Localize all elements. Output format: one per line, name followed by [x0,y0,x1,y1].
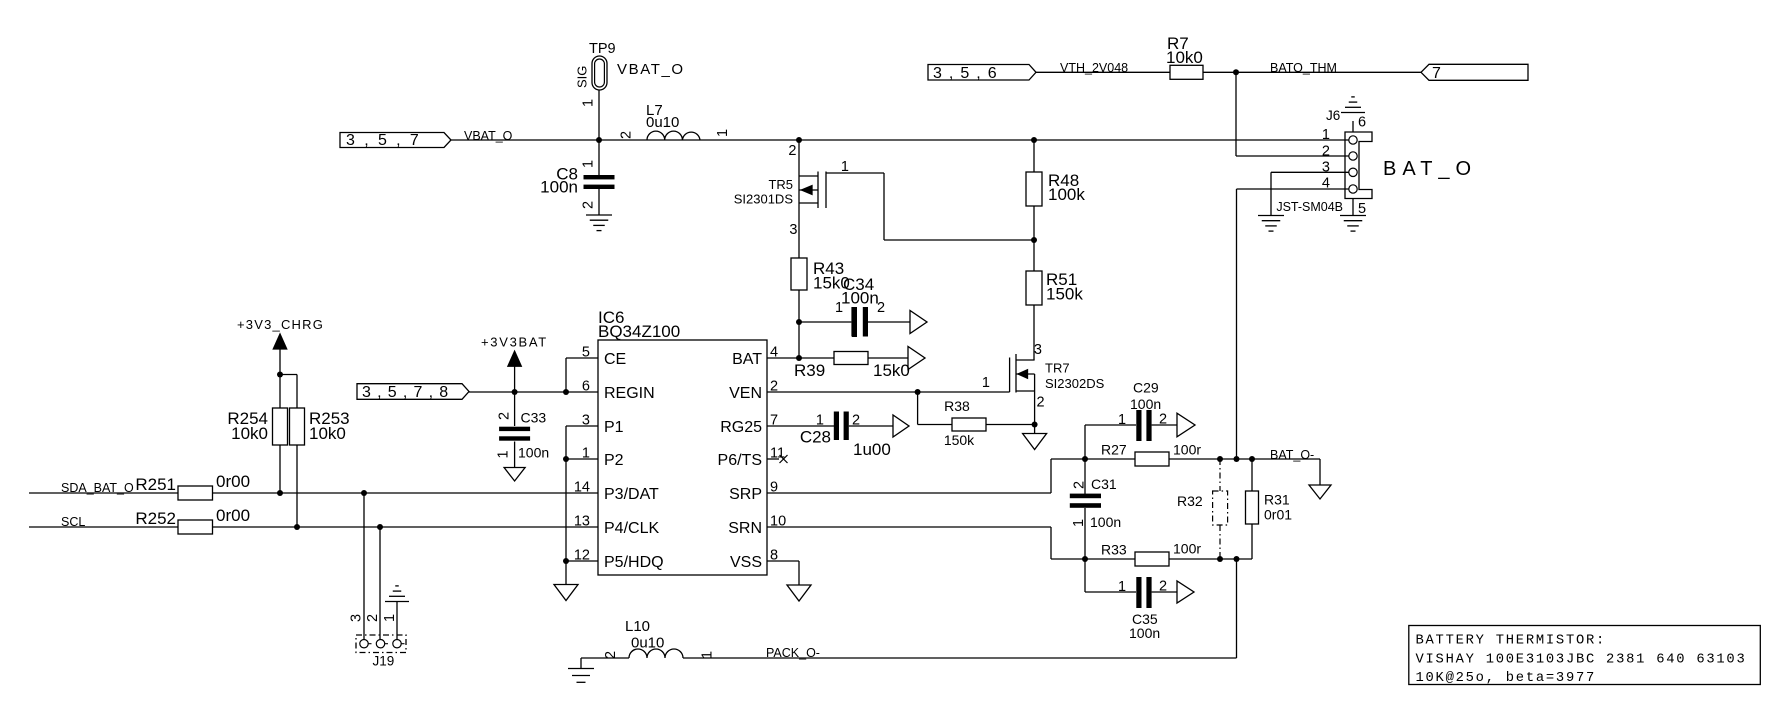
svg-text:7: 7 [1432,65,1441,82]
svg-text:SI2301DS: SI2301DS [734,192,794,207]
svg-text:1: 1 [715,129,731,137]
svg-text:150k: 150k [944,432,975,448]
svg-text:BAT_O-: BAT_O- [1270,448,1314,462]
svg-text:P4/CLK: P4/CLK [604,520,659,537]
ground TR7 (triangle) [1034,425,1036,434]
wire R7 to tag 7 [1203,71,1421,73]
node junction R254/R253 top [277,372,283,378]
svg-text:3: 3 [349,614,365,622]
svg-text:2: 2 [1037,395,1045,411]
svg-text:BQ34Z100: BQ34Z100 [598,322,680,341]
svg-text:R27: R27 [1101,442,1127,458]
svg-text:100n: 100n [1129,625,1160,641]
capacitor C29 [1085,424,1136,426]
svg-text:6: 6 [1358,115,1366,131]
svg-text:P6/TS: P6/TS [718,452,762,469]
transistor TR7 SI2302DS [1016,359,1035,361]
node junction J19 pin2 [377,524,383,530]
resistor R48 [1033,140,1035,172]
svg-text:J6: J6 [1326,108,1340,123]
svg-text:1: 1 [581,99,597,107]
capacitor C35 [1085,591,1136,593]
svg-text:100k: 100k [1048,185,1085,204]
net tag 3,5,7 (VBAT_O) [340,133,451,148]
wire PACK_O- [683,657,1237,659]
svg-text:C28: C28 [800,428,831,447]
svg-text:1: 1 [982,375,990,391]
svg-text:BATTERY THERMISTOR:: BATTERY THERMISTOR: [1416,634,1607,649]
node junction TP9/C8 [596,137,602,143]
ground J19 pin1 (earth up) [385,601,409,603]
IC U1 BQ34Z100 body [598,340,767,575]
node junction R32 bottom [1217,556,1223,562]
wire C29 bus down [1084,425,1086,494]
transistor TR5 SI2301DS [799,175,818,177]
wire TR5 gate to R48/R51 node [826,172,884,174]
svg-text:2: 2 [1322,144,1330,160]
svg-text:C33: C33 [521,410,547,426]
svg-text:10K@25o, beta=3977: 10K@25o, beta=3977 [1416,670,1597,686]
wire REGIN row [469,391,598,393]
node junction REGIN/CE [563,389,569,395]
ground P5 (triangle) [565,561,567,585]
svg-text:10k0: 10k0 [309,424,346,443]
resistor R33 [1085,558,1135,560]
capacitor C8 [598,140,600,176]
svg-text:2: 2 [1072,481,1088,489]
svg-text:2: 2 [497,412,513,420]
node junction TR5 [796,137,802,143]
svg-text:REGIN: REGIN [604,385,655,402]
svg-text:3: 3 [1034,342,1042,358]
wire R43 to BAT row [798,290,800,358]
net tag 3,5,6 (VTH) [928,65,1036,81]
resistor R27 [1085,458,1135,460]
node junction PACK net [1234,556,1240,562]
resistor R32 (dashed) [1219,459,1221,491]
svg-text:100r: 100r [1173,442,1201,458]
wire SRN row [767,526,1051,528]
svg-text:P2: P2 [604,452,624,469]
ground J6 pin3 [1258,215,1284,217]
wire PACK up to R33 row [1236,559,1238,658]
svg-text:15k0: 15k0 [873,361,910,380]
node junction TR5 gate net [1031,237,1037,243]
svg-text:VBAT_O: VBAT_O [617,61,685,78]
svg-text:VBAT_O: VBAT_O [464,129,513,143]
resistor R51 [1026,271,1042,305]
ground C8 [586,214,612,216]
node junction BAT/R39 [796,355,802,361]
svg-text:100n: 100n [540,178,578,197]
svg-text:SRN: SRN [728,520,762,537]
svg-text:1: 1 [1322,127,1330,143]
svg-text:JST-SM04B: JST-SM04B [1276,200,1343,214]
svg-text:1: 1 [1118,579,1126,595]
wire SCL left [29,526,178,528]
J6 pin circles [1349,136,1357,144]
svg-text:L10: L10 [625,618,650,635]
svg-text:3: 3 [789,222,797,238]
wire J6 pin2 (BATO_THM) [1235,72,1237,156]
svg-text:C29: C29 [1133,380,1159,396]
svg-text:SIG: SIG [575,66,590,88]
svg-text:VEN: VEN [729,385,762,402]
svg-text:PACK_O-: PACK_O- [766,646,820,660]
wire SDA right [213,492,599,494]
svg-text:100n: 100n [1130,396,1161,412]
offpage arrow C28 [893,415,909,437]
svg-text:1: 1 [382,614,398,622]
resistor R31 [1251,459,1253,491]
node junction R254/SDA [277,490,283,496]
node junction R38 [915,389,921,395]
svg-text:0u10: 0u10 [646,114,679,131]
wire SDA left [29,492,178,494]
svg-text:C31: C31 [1091,476,1117,492]
resistor R43 [791,258,807,290]
wire SRP row [767,492,1051,494]
connector J19 [363,493,365,639]
svg-text:5: 5 [1358,201,1366,217]
wire VSS [767,560,799,562]
wire R48-R51 [1033,206,1035,271]
connector J6 body [1345,132,1372,199]
net tag 7 [1421,64,1528,80]
resistor R39 [767,357,799,359]
svg-text:3,5,7: 3,5,7 [346,132,428,149]
svg-text:R252: R252 [135,509,176,528]
note box battery thermistor [1409,626,1761,685]
offpage arrow C34 [910,311,927,334]
svg-text:TR7: TR7 [1045,361,1070,376]
no-connect X P6/TS [767,458,779,460]
svg-text:P1: P1 [604,419,624,436]
node junction R48 [1031,137,1037,143]
svg-text:BAT_O: BAT_O [1383,158,1477,180]
svg-text:VISHAY 100E3103JBC 2381 640 63: VISHAY 100E3103JBC 2381 640 63103 [1416,653,1747,668]
svg-text:0r00: 0r00 [216,472,250,491]
node junction J19 pin3 [361,490,367,496]
J19 outline [356,635,406,653]
svg-text:1: 1 [816,413,824,429]
svg-text:SRP: SRP [729,486,762,503]
svg-text:1u00: 1u00 [853,440,891,459]
svg-text:3,5,6: 3,5,6 [933,65,1004,82]
svg-text:SI2302DS: SI2302DS [1045,376,1105,391]
svg-text:R33: R33 [1101,542,1127,558]
svg-text:1: 1 [841,159,849,175]
svg-text:+3V3BAT: +3V3BAT [481,335,548,350]
svg-text:+3V3_CHRG: +3V3_CHRG [237,317,324,332]
svg-text:VSS: VSS [730,554,762,571]
svg-text:TR5: TR5 [768,177,793,192]
node junction C34 [796,319,802,325]
capacitor C33 [514,392,516,426]
J19 pin circles [360,640,368,648]
node junction R31 top [1249,456,1255,462]
svg-text:4: 4 [770,345,778,361]
svg-text:2: 2 [877,300,885,316]
wire J6 pin3 to ground [1271,171,1349,173]
svg-text:100r: 100r [1173,541,1201,557]
svg-text:RG25: RG25 [720,419,762,436]
svg-text:10k0: 10k0 [231,424,268,443]
svg-text:CE: CE [604,351,626,368]
wire to R253 [280,374,297,376]
wire R51 to TR7 drain [1033,305,1035,360]
svg-text:R31: R31 [1264,492,1290,508]
node junction R253/SCL [294,524,300,530]
ground BAT_O- (triangle) [1319,459,1321,485]
wire VBAT_O main [451,139,1349,141]
svg-text:100n: 100n [841,289,879,308]
resistor R254 [279,375,281,409]
node junction BATO_THM [1233,69,1239,75]
svg-text:P3/DAT: P3/DAT [604,486,659,503]
svg-text:2: 2 [788,143,796,159]
svg-text:2: 2 [619,131,635,139]
svg-text:2: 2 [365,614,381,622]
svg-text:150k: 150k [1046,285,1083,304]
svg-text:10k0: 10k0 [1166,48,1203,67]
svg-text:0r00: 0r00 [216,506,250,525]
wire CE stub [566,357,598,359]
resistor R38 [917,392,919,425]
wire R254 bottom [279,445,281,493]
J6 pin 5 to ground [1352,199,1354,216]
svg-text:BAT: BAT [732,351,762,368]
wire J6 pin4 (BAT_O-) [1237,188,1349,190]
svg-text:1: 1 [581,160,597,168]
wire TR7 source to R38 node [1034,391,1036,425]
node junction R33 row [1082,556,1088,562]
resistor R253 [290,408,305,445]
svg-text:1: 1 [496,450,512,458]
node junction P5 [563,558,569,564]
offpage arrow C29 [1177,413,1195,437]
wire TP9 to node [598,90,600,140]
svg-text:0r01: 0r01 [1264,507,1292,523]
wire P2 stub [566,458,598,460]
svg-text:R38: R38 [944,398,970,414]
svg-text:100n: 100n [518,445,549,461]
offpage arrow C35 [1177,581,1194,603]
wire TR5 source drop [798,140,800,258]
wire SCL right [213,526,599,528]
ground VSS (triangle) [787,585,811,601]
wire R253 bottom [296,445,298,527]
svg-text:100n: 100n [1090,514,1121,530]
ground C33 (triangle) [504,468,525,482]
offpage arrow R39 [908,347,925,370]
wire P5 stub [566,560,598,562]
node junction R27 row [1082,456,1088,462]
svg-text:3: 3 [1322,160,1330,176]
svg-text:R39: R39 [794,361,825,380]
node junction J6 pin4 net [1234,456,1240,462]
svg-text:3,5,7,8: 3,5,7,8 [362,384,454,401]
J6 pin 6 to ground [1352,121,1354,132]
ground L10 (earth) [581,657,629,659]
wire P1 stub [566,425,598,427]
capacitor C28 [767,425,834,427]
node junction +3V3BAT [512,389,518,395]
svg-text:1: 1 [835,300,843,316]
wire P2-P5 drop [565,459,567,561]
svg-text:R32: R32 [1177,493,1203,509]
svg-text:1: 1 [1118,412,1126,428]
node junction R32 top [1217,456,1223,462]
svg-text:TP9: TP9 [589,41,616,57]
svg-text:BATO_THM: BATO_THM [1270,61,1337,75]
wire VEN row [767,391,1010,393]
svg-text:P5/HDQ: P5/HDQ [604,554,664,571]
svg-text:J19: J19 [373,654,395,669]
node junction P2 [563,456,569,462]
net tag 3,5,7,8 [357,384,469,400]
wire VTH to R7 [1036,71,1170,73]
svg-text:R251: R251 [135,475,176,494]
svg-text:2: 2 [581,201,597,209]
